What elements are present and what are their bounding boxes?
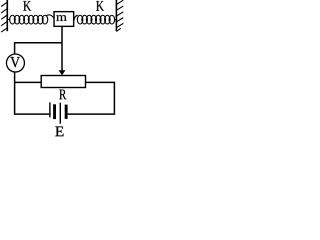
- spring K right: [74, 15, 116, 24]
- label K (right spring): [96, 1, 104, 10]
- label E: [55, 127, 63, 137]
- wiper arrowhead: [59, 70, 66, 75]
- battery E cell1 long plate: [49, 102, 51, 117]
- wire left wire to R left terminal: [15, 81, 42, 83]
- label m: [56, 15, 66, 21]
- wire from wiper tap to voltmeter: [15, 43, 62, 54]
- battery E cell2 long plate: [59, 103, 61, 124]
- wire from R right terminal around to battery (right loop): [68, 82, 115, 114]
- potentiometer R body: [41, 76, 85, 88]
- battery E cell2 short plate: [65, 105, 68, 119]
- right wall hatching: [116, 0, 123, 31]
- right wall: [115, 0, 117, 31]
- label R: [59, 90, 66, 100]
- spring K left: [8, 15, 54, 24]
- label V: [10, 57, 19, 67]
- left wall hatching: [1, 2, 7, 32]
- wire from m down to wiper: [61, 26, 63, 70]
- left wall: [6, 0, 8, 31]
- voltmeter V: [6, 54, 24, 72]
- battery E cell1 short plate: [53, 104, 56, 119]
- wire from voltmeter bottom to battery (left loop): [15, 72, 51, 114]
- mass box m: [54, 12, 74, 27]
- label K (left spring): [23, 1, 31, 10]
